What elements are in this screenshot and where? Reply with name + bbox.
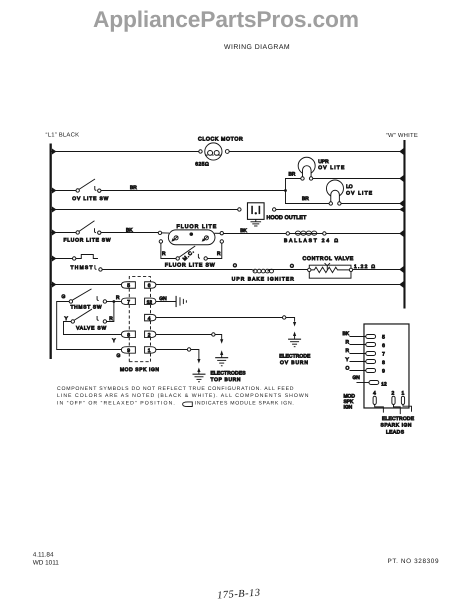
RAIL5 [51,254,404,282]
svg-text:R: R [162,251,166,257]
svg-text:8: 8 [127,332,130,338]
svg-text:UPR: UPR [318,159,329,165]
svg-text:O: O [290,263,294,269]
lamp UPR OV LITE [298,157,315,174]
pin 2 [145,331,156,338]
svg-text:G: G [61,294,65,300]
ground electrode ov burn [288,338,301,340]
node junction on W bus [399,207,404,213]
wire switch to fluor lite, BK [101,231,158,233]
svg-text:CLOCK MOTOR: CLOCK MOTOR [198,136,243,142]
RAIL6 [51,281,404,288]
svg-text:BK: BK [240,228,247,234]
L1 bus (left) [50,143,52,359]
node junction on W bus [399,200,404,207]
pin 12 [145,298,156,305]
thermostat moving contact [95,265,97,269]
note module spark ign symbol [183,402,193,407]
fluor lite left electrode [174,236,178,240]
svg-text:WIRING DIAGRAM: WIRING DIAGRAM [224,44,290,51]
control valve resistor [311,267,349,272]
wire ballast to W bus [326,232,404,234]
svg-text:2: 2 [391,390,394,396]
svg-text:6: 6 [148,283,151,289]
svg-text:BK: BK [126,228,133,234]
svg-text:FLUOR LITE: FLUOR LITE [176,224,216,230]
wire G pin9 to thmst sw [57,301,122,349]
svg-text:7: 7 [382,351,385,357]
RAIL3 [51,203,404,226]
node terminal right of tube [220,231,223,234]
svg-text:12: 12 [147,299,153,304]
wire vertical lamp feed [285,178,300,190]
wire igniter to control valve, O [269,268,308,270]
svg-text:AppliancePartsPros.com: AppliancePartsPros.com [93,6,359,32]
svg-text:PT. NO 328309: PT. NO 328309 [388,558,439,565]
wire L1 to pin 5 [51,283,121,285]
node junction on W bus [399,148,404,155]
svg-text:BALLAST 24 Ω: BALLAST 24 Ω [284,238,338,244]
pin 5 [121,282,135,289]
svg-text:THMST: THMST [70,265,92,271]
node junction on W bus [399,266,404,273]
lamp LO OV LITE [326,180,343,197]
svg-text:GN: GN [159,296,167,302]
ground electrodes top burn [215,357,228,359]
svg-text:R: R [345,348,349,354]
electrode top burn spark tip [220,350,223,355]
svg-text:9: 9 [127,348,130,354]
wire pin 12 to spark gap, GN [156,300,176,302]
node terminal [308,268,311,271]
node terminal [72,257,75,260]
svg-text:WD 1011: WD 1011 [33,559,60,566]
switch FLUOR LITE SW [76,231,79,234]
svg-text:TOP BURN: TOP BURN [210,377,240,383]
node R junction [112,300,115,303]
spark gap electrode symbol [175,296,177,307]
node terminal right of clock motor [225,150,229,154]
svg-text:BR: BR [288,171,295,177]
svg-text:OV LITE SW: OV LITE SW [72,196,108,202]
svg-text:CONTROL VALVE: CONTROL VALVE [302,256,353,262]
svg-text:ELECTRODE: ELECTRODE [382,416,415,422]
svg-text:8: 8 [382,360,385,366]
svg-text:FLUOR LITE SW: FLUOR LITE SW [63,237,110,243]
svg-text:O: O [345,365,349,371]
svg-text:175-B-13: 175-B-13 [217,587,261,600]
svg-text:2: 2 [148,332,151,338]
node junction on W bus [399,230,404,237]
svg-text:625Ω: 625Ω [195,162,209,168]
RAIL4 [51,221,404,269]
svg-text:HOOD OUTLET: HOOD OUTLET [266,215,307,221]
svg-text:G: G [116,353,120,359]
pin 7 [121,298,135,305]
svg-text:“W” WHITE: “W” WHITE [386,132,418,139]
svg-text:7: 7 [127,299,130,305]
wire control valve to W bus [353,268,404,270]
node terminal left of clock motor [199,150,202,153]
node terminal [286,232,289,235]
node junction on L1 bus [52,187,57,193]
wire L1 to oven light switch [51,189,76,191]
ballast coil [289,232,322,234]
node junction on L1 bus [52,206,57,212]
svg-text:6: 6 [382,343,385,349]
clock motor M1 [205,143,222,160]
ground of hood outlet [255,219,257,221]
MODULE [342,324,414,435]
svg-text:COMPONENT SYMBOLS DO NOT REFLE: COMPONENT SYMBOLS DO NOT REFLECT TRUE CO… [57,386,294,392]
control valve wiper Y [325,263,330,270]
fluor lite right electrode [204,236,208,240]
RAIL2 [51,157,404,207]
wire pin 6 to W bus [156,283,404,285]
wire thermostat to igniter, O [102,268,252,270]
svg-text:MOD: MOD [343,394,355,400]
hood outlet receptacle [247,203,264,220]
switch OV LITE SW [76,189,79,192]
node junction on W bus [399,175,404,182]
switch FLUOR LITE SW (momentary M.C.) [176,257,179,260]
wire switch to lamp node, BR [101,189,286,191]
electrode spark tip [197,367,200,372]
ground electrode [192,373,205,375]
CONNECTOR [57,277,311,383]
electrode OV BURN spark tip [293,331,296,336]
node junction on L1 bus [52,255,57,261]
svg-text:BR: BR [302,196,309,202]
svg-text:LINE COLORS ARE AS NOTED (BLAC: LINE COLORS ARE AS NOTED (BLACK & WHITE)… [57,393,309,399]
svg-text:R: R [116,295,120,301]
node junction on L1 bus [52,229,57,235]
dashed outline module spark ign connector [129,277,150,362]
node terminal [158,231,161,234]
svg-text:1: 1 [401,390,404,396]
FOOTER [33,386,439,600]
svg-text:ELECTRODE: ELECTRODE [279,354,311,360]
svg-text:GN: GN [352,375,360,381]
fluor lite center dot [189,232,193,236]
svg-text:SPARK IGN: SPARK IGN [380,422,411,428]
pin 1 [145,347,156,354]
control valve box [309,265,351,278]
svg-text:4.11.84: 4.11.84 [33,552,54,559]
svg-text:VALVE SW: VALVE SW [76,325,106,331]
wire Y pin8 to valve sw [63,321,121,334]
svg-text:OV BURN: OV BURN [280,360,308,366]
module spark ign box U1 [364,324,409,408]
wire pin 2 to electrodes top burn [156,333,212,335]
svg-text:R: R [217,251,221,257]
svg-text:O: O [233,263,237,269]
wire tube to ballast, BK [223,232,286,234]
svg-text:1: 1 [148,348,151,354]
pin 9 [121,347,135,354]
wire pin 4 to electrode ov burn [156,316,283,318]
node terminal [349,268,352,271]
pin 6 [145,282,156,289]
wire L1 to fluor lite switch [51,231,76,233]
node junction on W bus [399,281,404,288]
svg-text:LO: LO [346,184,353,190]
svg-text:IN “OFF” OR “RELAXED” POSITION: IN “OFF” OR “RELAXED” POSITION. [57,401,175,407]
wire node R to pin 7 [114,300,122,302]
node terminal [238,208,241,211]
wire hood outlet to W bus [276,208,404,210]
fluorescent lamp FLUOR LITE [168,230,215,245]
RAIL1 [51,136,404,167]
svg-text:5: 5 [127,283,130,289]
pin 4 [145,314,156,321]
svg-text:BK: BK [342,331,349,337]
svg-text:“L1” BLACK: “L1” BLACK [46,132,80,139]
svg-text:LEADS: LEADS [386,429,405,435]
wire upper lamp to W bus [313,177,404,179]
svg-text:BR: BR [130,185,137,191]
node terminal [272,208,275,211]
svg-text:MOD SPK IGN: MOD SPK IGN [120,367,159,373]
svg-text:INDICATES MODULE SPARK IGN.: INDICATES MODULE SPARK IGN. [195,401,294,407]
svg-text:R: R [109,316,113,322]
W bus (right) [403,140,405,309]
svg-text:9: 9 [382,369,385,375]
wire valve sw to node R [107,301,114,321]
wire L1 to clock motor [51,150,198,152]
node junction on L1 bus [52,148,57,154]
pin 8 [121,331,135,338]
igniter coil UPR BAKE IGNITER [252,269,269,271]
svg-text:IGN: IGN [343,404,352,410]
wire lower lamp to W bus [341,202,404,204]
svg-text:FLUOR LITE SW: FLUOR LITE SW [165,262,215,268]
svg-text:4: 4 [148,316,151,322]
wire thmst sw to node R [107,300,114,302]
wire tube lower-left terminal down [159,240,162,243]
wire L1 to hood outlet [51,208,237,210]
wire pin 1 to electrode [156,348,188,350]
node junction on L1 bus [52,281,57,287]
svg-text:SPK: SPK [343,399,354,405]
svg-text:12: 12 [381,381,387,387]
wire tube lower-right terminal down [220,240,223,243]
svg-text:5: 5 [382,334,385,340]
svg-text:ELECTRODES: ELECTRODES [210,371,246,377]
thermostat THMST bimetal [76,254,98,258]
clock motor coil [205,154,221,156]
wire clock motor to W bus [229,150,404,152]
node terminal [323,232,326,235]
svg-text:THMST SW: THMST SW [70,305,101,311]
svg-text:4: 4 [373,390,376,396]
node junction lamp feed [284,189,287,192]
svg-text:R: R [345,340,349,346]
wire L1 to thermostat [51,257,72,259]
